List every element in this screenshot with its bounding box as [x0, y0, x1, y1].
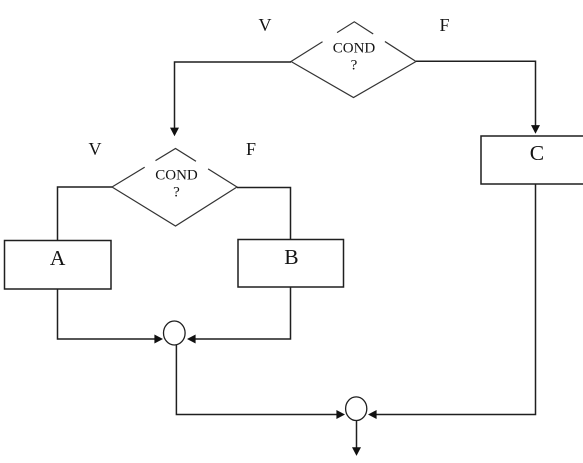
svg-text:?: ?: [173, 185, 180, 201]
svg-text:F: F: [439, 15, 449, 35]
svg-text:V: V: [89, 139, 102, 159]
svg-text:A: A: [50, 246, 66, 270]
svg-text:COND: COND: [333, 41, 376, 57]
svg-text:V: V: [259, 15, 272, 35]
svg-text:?: ?: [351, 58, 358, 74]
svg-text:B: B: [284, 245, 298, 269]
svg-text:COND: COND: [155, 168, 198, 184]
svg-text:F: F: [246, 139, 256, 159]
svg-text:C: C: [530, 141, 544, 165]
